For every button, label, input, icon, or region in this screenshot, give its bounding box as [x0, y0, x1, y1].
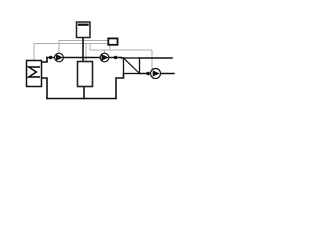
wire boiler top stub [42, 58, 48, 63]
buffer tank T1 [78, 62, 93, 87]
wire return bus bottom [47, 98, 116, 100]
wire pump P1 to controller (grey) [59, 41, 108, 54]
boiler B1 [27, 61, 42, 87]
wire drop to pump P2 (grey) [104, 50, 106, 53]
pump P3 [151, 69, 161, 79]
pump P1 [55, 53, 64, 62]
junction dot D2 [114, 56, 117, 59]
wire riser x90 (grey) [89, 44, 91, 51]
wire tank sensor drop (grey) [85, 44, 87, 62]
wire drop to pump P3 (grey) [151, 50, 153, 70]
wire boiler sensor to controller (grey) [34, 44, 108, 61]
wire supply line [47, 57, 124, 60]
pump P2 [100, 53, 109, 62]
wire controller bottom drop (grey) [109, 45, 111, 50]
heat exchanger HX1 [124, 58, 140, 74]
controller U1 [108, 38, 117, 44]
junction dot D3 [146, 72, 149, 75]
wire tank bottom drop [83, 87, 85, 99]
wire return from heat exchanger [116, 74, 124, 99]
junction dot D1 [49, 56, 52, 59]
wire horizontal run y50 (grey) [90, 49, 152, 51]
wire expansion vessel stem [82, 38, 84, 62]
wire return line right [140, 73, 175, 75]
expansion vessel EV1 [77, 22, 91, 38]
wire boiler return riser [42, 78, 48, 99]
wire supply continuation to right [140, 57, 173, 59]
